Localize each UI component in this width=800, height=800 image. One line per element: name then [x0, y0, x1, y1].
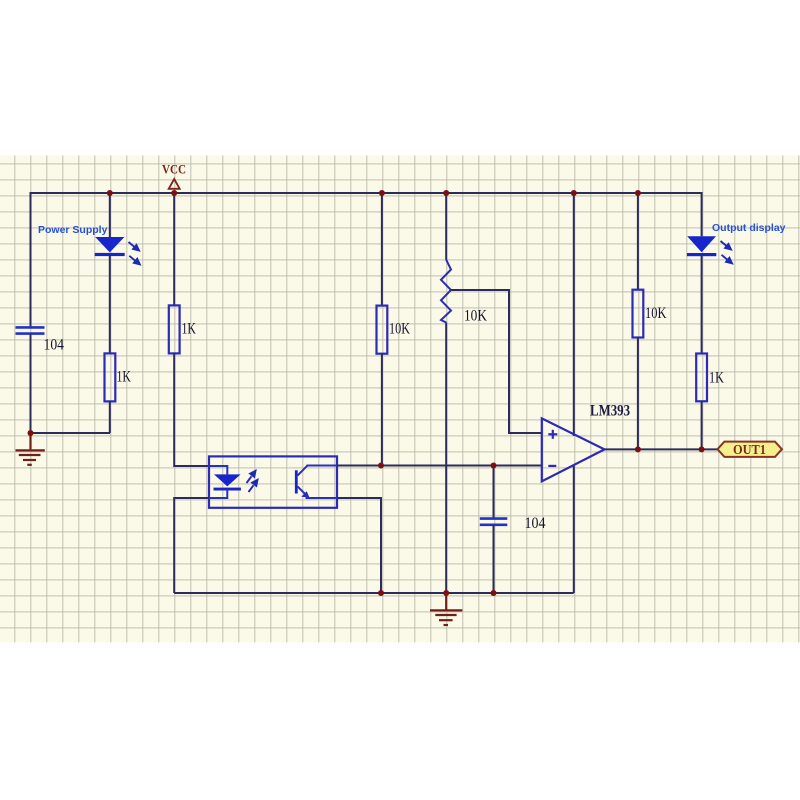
junction dot left ground: [28, 430, 34, 436]
wire: R5 bottom to output wire: [701, 401, 703, 449]
wire: left rail lower (cap C1 bottom to ground corner): [30, 334, 32, 433]
wire: R2 bottom down to optocoupler anode: [174, 353, 209, 466]
wire: R1 bottom to bottom-left wire: [109, 401, 111, 433]
svg-text:VCC: VCC: [162, 162, 186, 177]
wire: left rail upper (to cap C1 top): [30, 192, 32, 327]
resistor R4 10K box: [633, 290, 644, 338]
junction dot C2 top: [491, 463, 497, 469]
capacitor C1 104 plates: [16, 327, 45, 333]
wire: cap C2 bottom lead: [493, 525, 495, 593]
optocoupler phototransistor Q1: [295, 466, 310, 498]
wire: bottom-left wire to R1: [31, 432, 111, 434]
wire: VCC branch to R2: [173, 193, 175, 305]
wire: RP1 bottom lead to bottom rail: [445, 323, 447, 594]
optocoupler LED light arrows: [247, 471, 258, 492]
junction dot C2 bottom: [491, 590, 497, 596]
svg-text:Output display: Output display: [712, 222, 786, 234]
wire: 10K R4 branch top: [637, 193, 639, 290]
optocoupler U2 box: [209, 456, 337, 507]
wire: RP1 wiper to non-inverting input: [450, 290, 542, 433]
LED D2 (output display LED): [687, 236, 732, 263]
output port OUT1: [718, 442, 782, 457]
wire: top power rail: [31, 192, 702, 194]
wire: LED D2 to R5: [701, 255, 703, 354]
wire: R4 bottom to output wire: [637, 338, 639, 450]
optocoupler LED: [214, 471, 258, 492]
wire: collector to inverting input of U1: [307, 465, 339, 467]
LED D2 light arrows: [721, 241, 733, 263]
wire: bottom ground rail: [174, 592, 574, 594]
wire: U1 power pin from top rail: [573, 193, 575, 436]
junction dot R3 bottom / inverting net: [378, 463, 384, 469]
svg-text:10K: 10K: [645, 305, 667, 322]
junction dot R4 output: [635, 446, 641, 452]
svg-text:10K: 10K: [389, 321, 411, 338]
svg-text:Power Supply: Power Supply: [38, 224, 108, 236]
junction dot RP1 top: [443, 190, 449, 196]
resistor R5 1K box: [696, 354, 707, 402]
wire: 10K R3 branch top: [381, 193, 383, 306]
junction dot emitter net bottom rail: [378, 590, 384, 596]
op-amp U1 LM393: [542, 418, 605, 481]
svg-text:LM393: LM393: [590, 403, 630, 420]
junction dot R4 top: [635, 190, 641, 196]
svg-text:1K: 1K: [117, 369, 132, 386]
capacitor C2 104 plates: [480, 519, 508, 525]
ground symbol left: [16, 433, 45, 465]
resistor R1 1K box: [105, 353, 116, 401]
LED D1 (power supply LED): [95, 237, 140, 264]
junction dot VCC: [171, 190, 177, 196]
resistor R3 10K box: [377, 306, 388, 354]
wire: LED D1 branch top: [109, 193, 111, 237]
wire: cap C2 top lead: [493, 466, 495, 519]
svg-text:1K: 1K: [709, 370, 725, 387]
svg-text:OUT1: OUT1: [733, 442, 766, 457]
svg-text:104: 104: [525, 515, 546, 532]
svg-text:10K: 10K: [464, 308, 488, 325]
wire: LED D1 to R1: [109, 255, 111, 353]
schematic background band: [0, 156, 800, 643]
wire: U1 ground pin to bottom rail: [573, 466, 575, 593]
junction dot R3 top: [379, 190, 385, 196]
junction dot U1 power top rail: [571, 190, 577, 196]
resistor R2 1K box: [169, 305, 180, 353]
LED D1 light arrows: [129, 242, 140, 264]
junction dot output at R5: [699, 446, 705, 452]
svg-text:104: 104: [44, 337, 65, 354]
wire: optocoupler cathode to bottom rail: [208, 489, 227, 498]
wire: emitter to bottom rail: [306, 497, 339, 499]
wire: potentiometer RP1 top lead: [445, 193, 447, 260]
wire: R3 bottom to inverting wire: [381, 354, 383, 466]
svg-text:1K: 1K: [182, 321, 197, 338]
wire: LED D2 branch from top rail corner: [701, 193, 702, 236]
ground symbol bottom center: [430, 593, 462, 625]
junction dot RP1 bottom rail: [443, 590, 449, 596]
wire: U1 output to OUT1: [605, 448, 718, 450]
junction dot LED branch top: [107, 190, 113, 196]
power port VCC: [162, 162, 186, 189]
potentiometer RP1 zigzag: [441, 260, 451, 323]
